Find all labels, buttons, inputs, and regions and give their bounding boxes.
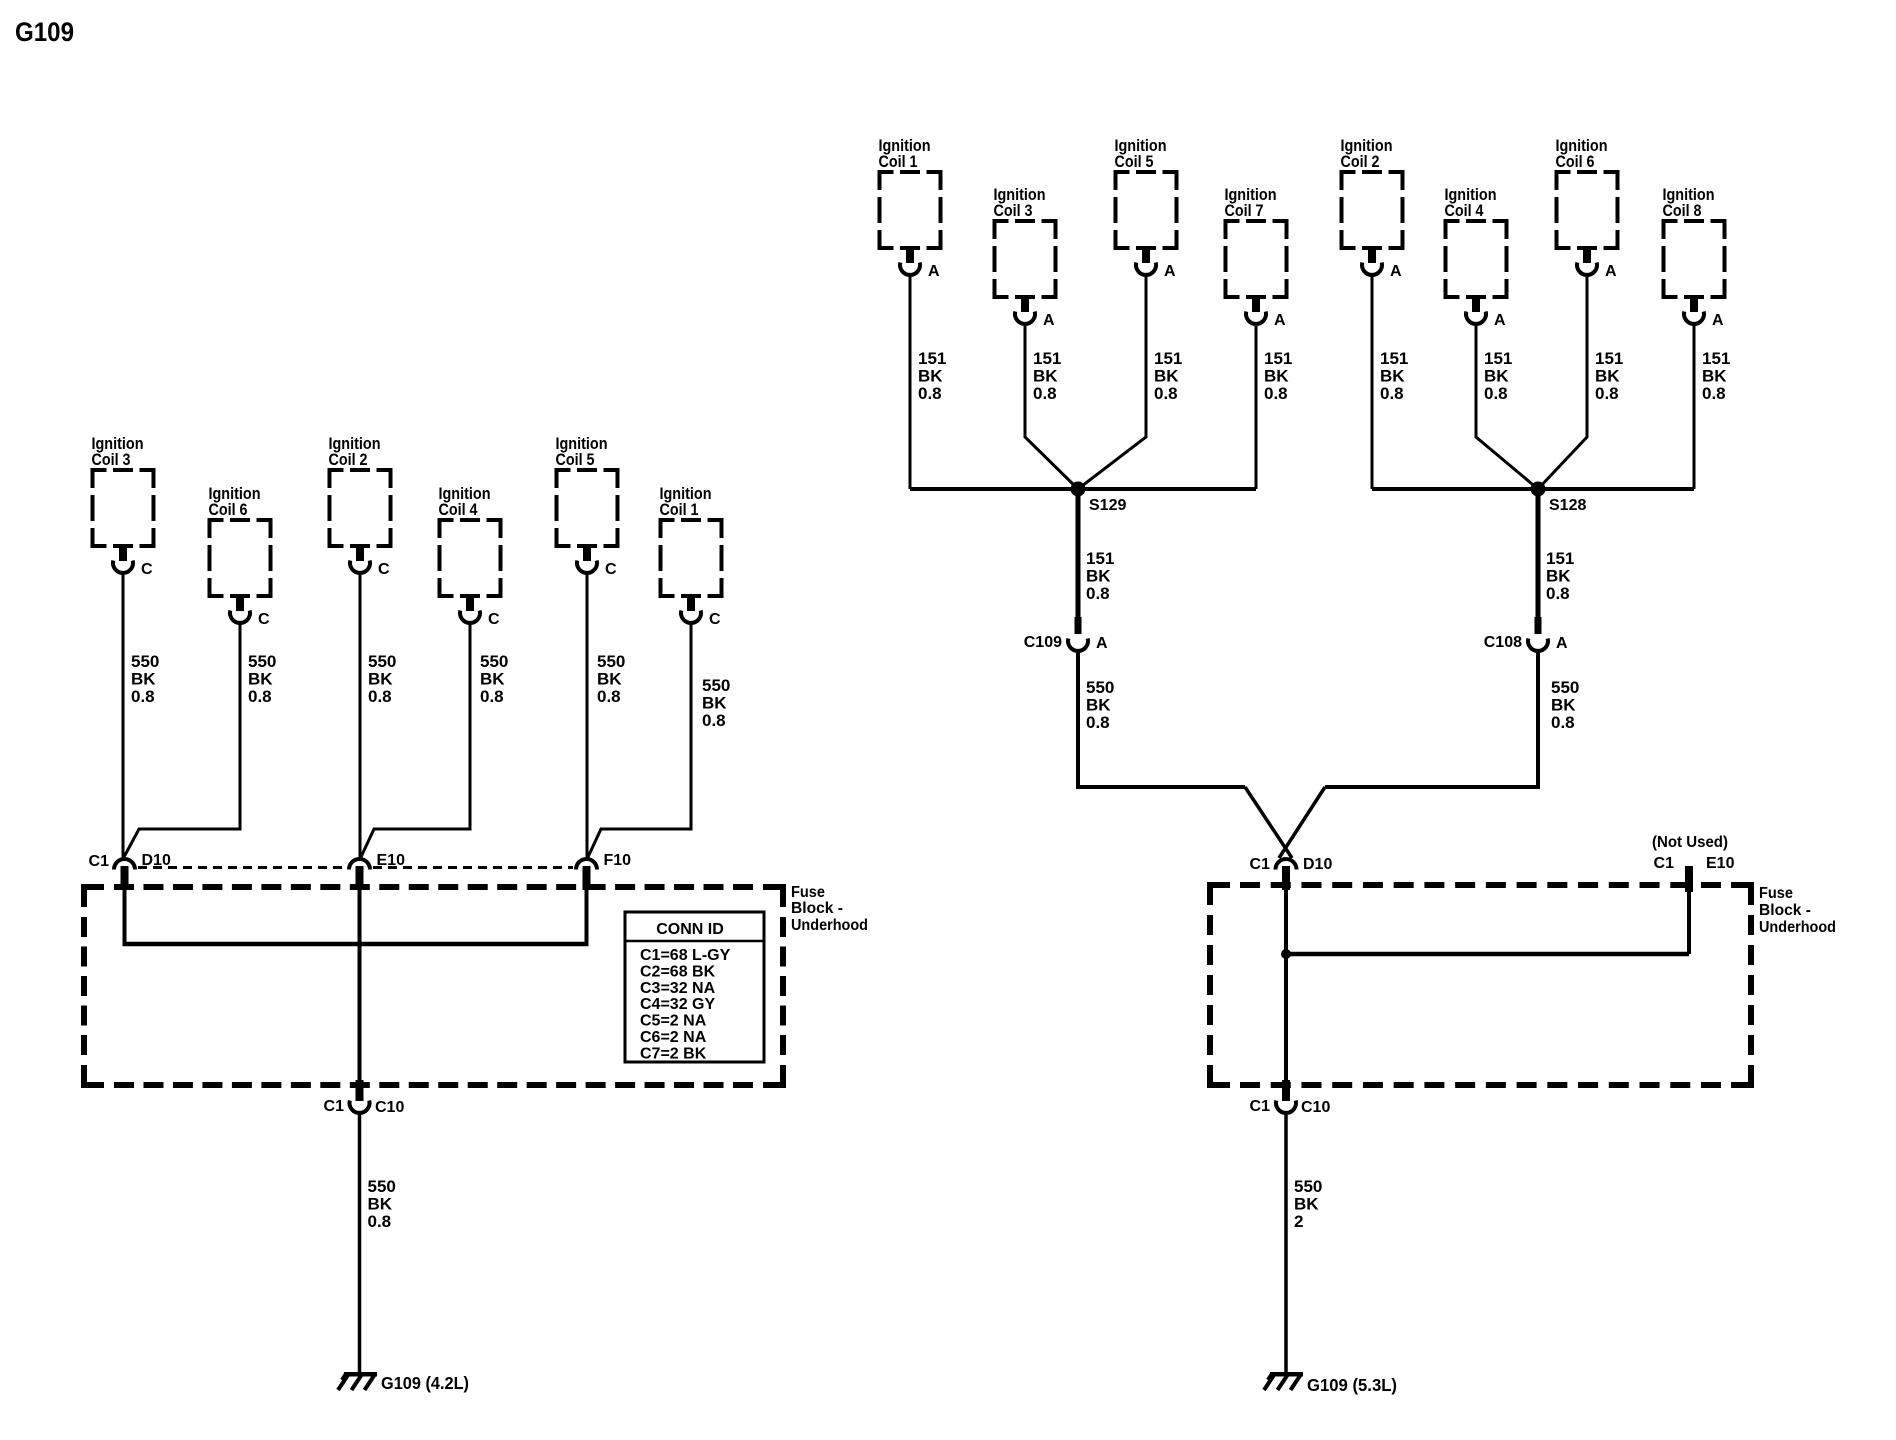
svg-text:Coil 8: Coil 8 — [1663, 201, 1702, 220]
svg-text:0.8: 0.8 — [248, 687, 272, 706]
svg-text:0.8: 0.8 — [1551, 713, 1575, 732]
svg-text:Underhood: Underhood — [1759, 919, 1836, 936]
svg-text:BK: BK — [1551, 696, 1576, 715]
svg-text:Block -: Block - — [791, 900, 843, 917]
svg-text:Coil 6: Coil 6 — [1556, 152, 1595, 171]
svg-text:BK: BK — [1380, 367, 1405, 386]
svg-text:C3=32 NA: C3=32 NA — [640, 980, 716, 997]
svg-text:C: C — [605, 561, 617, 578]
svg-text:C: C — [378, 561, 390, 578]
svg-text:0.8: 0.8 — [702, 711, 726, 730]
svg-text:G109 (4.2L): G109 (4.2L) — [381, 1373, 469, 1393]
svg-text:BK: BK — [1702, 367, 1727, 386]
svg-text:A: A — [1043, 312, 1055, 329]
svg-text:0.8: 0.8 — [1086, 584, 1110, 603]
svg-text:C4=32 GY: C4=32 GY — [640, 996, 715, 1013]
svg-text:C2=68 BK: C2=68 BK — [640, 963, 716, 980]
svg-text:BK: BK — [1154, 367, 1179, 386]
svg-text:BK: BK — [918, 367, 943, 386]
svg-text:0.8: 0.8 — [1702, 384, 1726, 403]
svg-text:0.8: 0.8 — [480, 687, 504, 706]
svg-text:Fuse: Fuse — [1759, 885, 1793, 902]
svg-text:550: 550 — [702, 676, 730, 695]
svg-text:Coil 2: Coil 2 — [329, 450, 368, 469]
svg-text:0.8: 0.8 — [1484, 384, 1508, 403]
svg-text:BK: BK — [1595, 367, 1620, 386]
svg-text:151: 151 — [1086, 549, 1114, 568]
svg-text:C: C — [488, 611, 500, 628]
svg-text:Coil 3: Coil 3 — [92, 450, 131, 469]
svg-text:BK: BK — [1086, 567, 1111, 586]
svg-text:C10: C10 — [1301, 1099, 1330, 1116]
svg-text:Coil 1: Coil 1 — [879, 152, 918, 171]
svg-text:A: A — [928, 263, 940, 280]
svg-text:C: C — [709, 611, 721, 628]
svg-text:BK: BK — [1264, 367, 1289, 386]
svg-text:G109: G109 — [15, 17, 74, 47]
svg-text:0.8: 0.8 — [131, 687, 155, 706]
svg-text:151: 151 — [918, 349, 946, 368]
svg-text:S129: S129 — [1089, 497, 1126, 514]
svg-text:C5=2 NA: C5=2 NA — [640, 1013, 707, 1030]
svg-text:0.8: 0.8 — [368, 687, 392, 706]
svg-text:151: 151 — [1595, 349, 1623, 368]
svg-text:D10: D10 — [1303, 856, 1332, 873]
svg-text:G109 (5.3L): G109 (5.3L) — [1307, 1375, 1397, 1395]
svg-text:BK: BK — [480, 670, 505, 689]
svg-text:S128: S128 — [1549, 497, 1586, 514]
svg-text:550: 550 — [131, 652, 159, 671]
svg-text:BK: BK — [1546, 567, 1571, 586]
svg-text:Block -: Block - — [1759, 902, 1811, 919]
svg-text:A: A — [1605, 263, 1617, 280]
svg-text:C1: C1 — [324, 1098, 345, 1115]
svg-text:151: 151 — [1484, 349, 1512, 368]
svg-text:0.8: 0.8 — [1033, 384, 1057, 403]
svg-text:E10: E10 — [1706, 855, 1735, 872]
svg-text:151: 151 — [1033, 349, 1061, 368]
svg-text:C: C — [258, 611, 270, 628]
svg-text:151: 151 — [1264, 349, 1292, 368]
svg-text:F10: F10 — [604, 852, 632, 869]
svg-text:0.8: 0.8 — [918, 384, 942, 403]
svg-text:550: 550 — [1086, 678, 1114, 697]
svg-text:BK: BK — [131, 670, 156, 689]
svg-text:BK: BK — [248, 670, 273, 689]
svg-text:BK: BK — [1033, 367, 1058, 386]
svg-text:151: 151 — [1546, 549, 1574, 568]
svg-text:550: 550 — [368, 652, 396, 671]
svg-text:(Not Used): (Not Used) — [1652, 834, 1728, 851]
svg-text:Coil 4: Coil 4 — [1445, 201, 1484, 220]
svg-text:151: 151 — [1154, 349, 1182, 368]
svg-text:550: 550 — [1294, 1177, 1322, 1196]
svg-text:Coil 2: Coil 2 — [1341, 152, 1380, 171]
svg-text:C109: C109 — [1024, 634, 1062, 651]
svg-text:A: A — [1274, 312, 1286, 329]
svg-text:C1: C1 — [89, 853, 110, 870]
svg-text:A: A — [1494, 312, 1506, 329]
svg-text:C7=2 BK: C7=2 BK — [640, 1045, 707, 1062]
svg-text:C6=2 NA: C6=2 NA — [640, 1029, 707, 1046]
svg-text:A: A — [1712, 312, 1724, 329]
svg-text:0.8: 0.8 — [1154, 384, 1178, 403]
svg-text:151: 151 — [1380, 349, 1408, 368]
svg-text:C1=68 L-GY: C1=68 L-GY — [640, 947, 731, 964]
svg-text:0.8: 0.8 — [1086, 713, 1110, 732]
svg-text:BK: BK — [1086, 696, 1111, 715]
svg-text:Coil 7: Coil 7 — [1225, 201, 1264, 220]
svg-text:Coil 5: Coil 5 — [556, 450, 595, 469]
svg-text:Underhood: Underhood — [791, 917, 868, 934]
svg-text:0.8: 0.8 — [368, 1212, 392, 1231]
svg-text:Coil 3: Coil 3 — [994, 201, 1033, 220]
svg-text:C1: C1 — [1250, 1098, 1271, 1115]
svg-text:550: 550 — [597, 652, 625, 671]
svg-text:BK: BK — [702, 694, 727, 713]
svg-text:0.8: 0.8 — [1380, 384, 1404, 403]
svg-text:BK: BK — [1294, 1195, 1319, 1214]
svg-text:BK: BK — [368, 670, 393, 689]
svg-text:A: A — [1096, 635, 1108, 652]
svg-text:C1: C1 — [1250, 856, 1271, 873]
svg-text:550: 550 — [480, 652, 508, 671]
svg-text:Coil 4: Coil 4 — [439, 500, 478, 519]
svg-text:Coil 6: Coil 6 — [209, 500, 248, 519]
svg-text:BK: BK — [1484, 367, 1509, 386]
svg-text:550: 550 — [368, 1177, 396, 1196]
svg-text:0.8: 0.8 — [1595, 384, 1619, 403]
svg-text:C108: C108 — [1484, 634, 1522, 651]
svg-text:A: A — [1556, 635, 1568, 652]
svg-text:C10: C10 — [375, 1099, 404, 1116]
svg-text:A: A — [1164, 263, 1176, 280]
svg-text:CONN ID: CONN ID — [656, 921, 724, 938]
svg-text:A: A — [1390, 263, 1402, 280]
svg-text:C: C — [141, 561, 153, 578]
svg-text:Fuse: Fuse — [791, 884, 825, 901]
svg-text:0.8: 0.8 — [1264, 384, 1288, 403]
svg-text:2: 2 — [1294, 1212, 1303, 1231]
svg-text:151: 151 — [1702, 349, 1730, 368]
svg-text:BK: BK — [368, 1195, 393, 1214]
svg-text:Coil 1: Coil 1 — [660, 500, 699, 519]
svg-text:550: 550 — [248, 652, 276, 671]
svg-text:0.8: 0.8 — [597, 687, 621, 706]
svg-text:Coil 5: Coil 5 — [1115, 152, 1154, 171]
svg-text:C1: C1 — [1654, 855, 1675, 872]
svg-text:0.8: 0.8 — [1546, 584, 1570, 603]
svg-text:550: 550 — [1551, 678, 1579, 697]
svg-text:BK: BK — [597, 670, 622, 689]
